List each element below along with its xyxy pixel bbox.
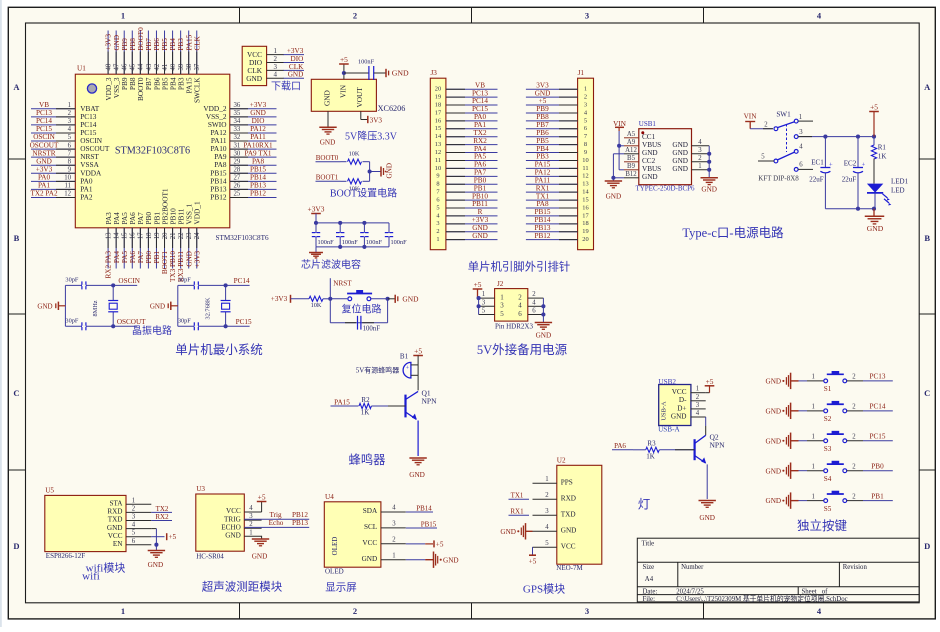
svg-text:+5: +5 — [529, 558, 537, 566]
svg-text:VCC: VCC — [108, 532, 123, 540]
svg-text:PB12: PB12 — [250, 190, 266, 198]
svg-text:PA1: PA1 — [474, 121, 487, 129]
svg-text:14: 14 — [582, 189, 589, 196]
svg-text:100nF: 100nF — [358, 58, 375, 65]
svg-text:S2: S2 — [824, 415, 832, 423]
svg-text:3: 3 — [482, 299, 486, 306]
svg-text:STM32F103C8T6: STM32F103C8T6 — [115, 146, 190, 157]
svg-text:15: 15 — [435, 125, 441, 132]
svg-text:3: 3 — [274, 63, 278, 71]
svg-text:GND: GND — [107, 524, 123, 532]
svg-text:B1: B1 — [400, 353, 409, 361]
svg-text:42: 42 — [154, 63, 161, 70]
svg-text:30pF: 30pF — [65, 317, 78, 324]
svg-text:21: 21 — [170, 233, 177, 240]
svg-text:GND: GND — [113, 35, 121, 51]
svg-text:PB0: PB0 — [145, 251, 153, 264]
svg-text:VCC: VCC — [226, 507, 241, 515]
svg-text:5V有源蜂鸣器: 5V有源蜂鸣器 — [356, 365, 400, 374]
svg-text:1: 1 — [68, 102, 71, 109]
svg-text:33: 33 — [234, 126, 241, 133]
svg-text:PA5: PA5 — [121, 251, 129, 264]
svg-text:GND: GND — [642, 149, 658, 157]
svg-text:GND: GND — [699, 514, 715, 522]
svg-text:46: 46 — [122, 63, 129, 70]
svg-text:2: 2 — [852, 434, 856, 441]
svg-text:+5: +5 — [340, 55, 348, 64]
svg-text:B12: B12 — [625, 171, 637, 178]
svg-text:1: 1 — [698, 163, 701, 170]
svg-text:GND: GND — [320, 138, 336, 146]
svg-text:+3V3: +3V3 — [308, 205, 325, 214]
svg-text:RX2: RX2 — [473, 137, 487, 145]
svg-text:3: 3 — [696, 402, 700, 409]
svg-text:VOUT: VOUT — [355, 87, 364, 108]
svg-text:1: 1 — [482, 291, 485, 298]
svg-text:GND: GND — [766, 407, 782, 415]
svg-text:ESP8266-12F: ESP8266-12F — [46, 552, 85, 560]
svg-text:PC13: PC13 — [870, 373, 886, 381]
svg-text:2024/7/25: 2024/7/25 — [676, 588, 704, 595]
svg-text:30pF: 30pF — [178, 317, 191, 324]
svg-text:U2: U2 — [557, 457, 566, 465]
svg-text:USB-A: USB-A — [658, 426, 680, 434]
svg-text:GND: GND — [561, 527, 577, 535]
svg-text:2: 2 — [274, 55, 278, 63]
svg-text:XC6206: XC6206 — [378, 104, 406, 113]
svg-text:11: 11 — [435, 157, 441, 164]
svg-text:GND: GND — [402, 294, 419, 303]
svg-text:VIN: VIN — [339, 84, 348, 98]
svg-text:3: 3 — [585, 11, 589, 21]
svg-text:30pF: 30pF — [65, 277, 78, 284]
svg-text:PB9: PB9 — [536, 105, 549, 113]
svg-text:24: 24 — [194, 232, 201, 239]
svg-text:1: 1 — [811, 434, 814, 441]
svg-text:PB7: PB7 — [536, 121, 549, 129]
svg-text:4: 4 — [518, 302, 522, 310]
svg-text:PA7: PA7 — [137, 251, 145, 264]
svg-text:10: 10 — [435, 165, 441, 172]
svg-text:3: 3 — [698, 147, 702, 154]
svg-text:PB3: PB3 — [536, 153, 549, 161]
svg-text:100nF: 100nF — [342, 239, 359, 246]
svg-text:PB5: PB5 — [161, 38, 169, 51]
svg-text:GND: GND — [642, 173, 658, 181]
svg-text:1: 1 — [811, 463, 814, 470]
svg-text:10: 10 — [64, 175, 71, 182]
svg-text:GND: GND — [536, 332, 552, 340]
svg-text:PA0: PA0 — [474, 113, 487, 121]
svg-text:SWCLK: SWCLK — [193, 77, 202, 103]
svg-text:D: D — [13, 541, 19, 551]
svg-text:GND: GND — [225, 532, 241, 540]
svg-text:13: 13 — [435, 141, 441, 148]
svg-text:17: 17 — [435, 109, 442, 116]
svg-text:+: + — [862, 161, 866, 168]
svg-text:3V3: 3V3 — [370, 116, 383, 124]
svg-text:PC15: PC15 — [870, 433, 886, 441]
svg-text:2: 2 — [132, 505, 136, 512]
svg-text:LED: LED — [891, 187, 905, 195]
svg-text:3: 3 — [799, 129, 803, 136]
svg-text:PA8: PA8 — [252, 157, 265, 165]
svg-text:GND: GND — [500, 528, 516, 536]
svg-text:VB: VB — [39, 101, 49, 109]
svg-text:GND: GND — [250, 109, 266, 117]
svg-text:+5: +5 — [539, 97, 547, 105]
svg-text:41: 41 — [162, 64, 169, 71]
svg-text:BOOT0: BOOT0 — [316, 154, 339, 162]
svg-text:SDA: SDA — [363, 507, 378, 515]
svg-text:PB13: PB13 — [292, 519, 308, 527]
svg-text:PB15: PB15 — [421, 520, 437, 528]
svg-text:1: 1 — [811, 404, 814, 411]
svg-text:10: 10 — [582, 157, 588, 164]
svg-text:PB14: PB14 — [416, 504, 432, 512]
svg-text:10K: 10K — [349, 151, 360, 158]
svg-text:3: 3 — [436, 220, 439, 227]
svg-text:PA10RX1: PA10RX1 — [243, 141, 273, 149]
svg-text:2: 2 — [696, 394, 700, 401]
svg-text:GND: GND — [766, 467, 782, 475]
svg-text:Sheet of: Sheet of — [802, 588, 829, 595]
svg-text:U1: U1 — [77, 65, 86, 73]
svg-text:Trig: Trig — [269, 511, 282, 519]
svg-text:+3V3: +3V3 — [287, 47, 304, 55]
svg-text:R2: R2 — [361, 396, 370, 404]
svg-text:RX2 PA3: RX2 PA3 — [105, 251, 113, 279]
svg-text:1K: 1K — [361, 409, 370, 417]
svg-text:A: A — [924, 82, 931, 92]
svg-text:5: 5 — [436, 204, 439, 211]
svg-text:1: 1 — [392, 552, 395, 559]
svg-text:5: 5 — [545, 540, 549, 547]
svg-text:复位电路: 复位电路 — [342, 302, 382, 315]
svg-text:EC2: EC2 — [844, 159, 857, 167]
svg-text:GND: GND — [386, 163, 394, 179]
svg-text:+5: +5 — [414, 347, 422, 356]
svg-text:U4: U4 — [325, 493, 334, 501]
svg-text:2: 2 — [436, 228, 439, 235]
svg-text:2: 2 — [852, 404, 856, 411]
svg-text:12: 12 — [435, 149, 441, 156]
svg-text:22: 22 — [178, 232, 185, 239]
svg-text:11: 11 — [64, 183, 71, 190]
svg-text:PB7: PB7 — [145, 38, 153, 51]
svg-text:A: A — [13, 82, 20, 92]
svg-text:GND: GND — [246, 74, 262, 83]
svg-text:GND: GND — [252, 553, 268, 561]
svg-text:12: 12 — [64, 191, 71, 198]
svg-text:NPN: NPN — [422, 397, 438, 406]
svg-text:19: 19 — [154, 232, 161, 239]
svg-text:超声波测距模块: 超声波测距模块 — [202, 580, 283, 594]
svg-text:Echo: Echo — [269, 519, 284, 527]
svg-text:U5: U5 — [45, 487, 54, 495]
svg-text:B9: B9 — [627, 163, 636, 170]
svg-text:GND: GND — [36, 157, 52, 165]
svg-text:14: 14 — [114, 232, 121, 239]
svg-text:D-: D- — [679, 396, 687, 404]
svg-text:2: 2 — [545, 492, 549, 499]
svg-text:1: 1 — [500, 294, 504, 302]
svg-text:2: 2 — [353, 11, 357, 21]
svg-text:PB11: PB11 — [472, 200, 488, 208]
svg-text:17: 17 — [582, 212, 589, 219]
svg-text:6: 6 — [518, 310, 522, 318]
svg-text:CC1: CC1 — [642, 133, 656, 141]
svg-text:PC15: PC15 — [236, 318, 252, 326]
svg-text:PB14: PB14 — [535, 216, 551, 224]
svg-text:+: + — [829, 161, 833, 168]
svg-text:1: 1 — [121, 11, 125, 21]
svg-text:CLK: CLK — [193, 35, 201, 50]
svg-text:GND: GND — [701, 186, 717, 194]
svg-text:30: 30 — [234, 150, 241, 157]
svg-text:6: 6 — [436, 196, 439, 203]
svg-text:PC15: PC15 — [36, 125, 52, 133]
svg-text:4: 4 — [532, 299, 536, 306]
svg-text:BOOT1: BOOT1 — [316, 174, 339, 182]
svg-text:5: 5 — [584, 117, 587, 124]
svg-text:6: 6 — [532, 308, 536, 315]
svg-text:PA5: PA5 — [474, 153, 487, 161]
svg-text:27: 27 — [234, 175, 241, 182]
svg-text:+3V3: +3V3 — [105, 34, 113, 51]
svg-text:PA15: PA15 — [334, 398, 350, 406]
svg-text:4: 4 — [696, 410, 700, 417]
svg-text:灯: 灯 — [638, 498, 651, 512]
svg-text:PB12: PB12 — [210, 192, 227, 201]
svg-text:PPS: PPS — [561, 479, 573, 487]
svg-text:PB0: PB0 — [871, 462, 884, 470]
svg-text:1: 1 — [436, 236, 439, 243]
svg-text:20: 20 — [162, 232, 169, 239]
svg-text:1: 1 — [545, 476, 548, 483]
svg-text:Revision: Revision — [843, 564, 868, 571]
svg-text:PC15: PC15 — [472, 105, 488, 113]
svg-text:GND: GND — [672, 157, 688, 165]
svg-text:D: D — [924, 541, 930, 551]
svg-text:OLED: OLED — [325, 568, 344, 576]
svg-text:19: 19 — [435, 94, 441, 101]
svg-text:PB1: PB1 — [153, 251, 161, 264]
svg-text:HC-SR04: HC-SR04 — [196, 553, 224, 561]
svg-text:44: 44 — [138, 63, 145, 70]
svg-text:PB1: PB1 — [474, 184, 487, 192]
svg-text:S4: S4 — [824, 475, 832, 483]
svg-text:PA6: PA6 — [614, 442, 626, 450]
svg-text:25: 25 — [234, 191, 241, 198]
svg-text:GND: GND — [671, 412, 687, 420]
svg-text:3: 3 — [545, 508, 549, 515]
svg-text:GND: GND — [766, 378, 782, 386]
svg-text:PB8: PB8 — [536, 113, 549, 121]
svg-text:3: 3 — [68, 118, 72, 125]
svg-text:NPN: NPN — [710, 441, 726, 450]
svg-text:17: 17 — [138, 232, 145, 239]
svg-text:DIO: DIO — [291, 55, 304, 63]
svg-text:47: 47 — [114, 63, 121, 70]
svg-text:2: 2 — [698, 155, 702, 162]
svg-text:3: 3 — [392, 521, 396, 528]
svg-text:A12: A12 — [625, 147, 637, 154]
svg-text:10K: 10K — [311, 302, 322, 309]
svg-text:37: 37 — [194, 63, 201, 70]
svg-text:2: 2 — [852, 493, 856, 500]
svg-text:9: 9 — [584, 149, 587, 156]
svg-text:18: 18 — [435, 101, 441, 108]
svg-text:BOOT1: BOOT1 — [161, 251, 169, 275]
svg-text:J3: J3 — [431, 69, 438, 77]
svg-text:12: 12 — [582, 173, 588, 180]
svg-text:PA15: PA15 — [185, 34, 193, 50]
svg-text:DIO: DIO — [252, 117, 265, 125]
svg-text:GND: GND — [288, 71, 304, 79]
svg-text:BOOT设置电路: BOOT设置电路 — [330, 187, 397, 200]
svg-text:5: 5 — [68, 134, 72, 141]
svg-text:VB: VB — [475, 81, 485, 89]
svg-text:OSCOUT: OSCOUT — [30, 141, 59, 149]
svg-text:8: 8 — [68, 158, 72, 165]
svg-text:6: 6 — [584, 125, 587, 132]
svg-text:独立按键: 独立按键 — [797, 518, 848, 533]
svg-text:19: 19 — [582, 228, 588, 235]
svg-text:GND: GND — [472, 224, 488, 232]
svg-text:7: 7 — [68, 150, 72, 157]
svg-text:39: 39 — [178, 63, 185, 70]
svg-text:R3: R3 — [647, 440, 656, 448]
svg-text:6: 6 — [799, 162, 803, 169]
svg-text:38: 38 — [186, 63, 193, 70]
svg-text:VCC: VCC — [362, 539, 377, 547]
svg-text:PA15: PA15 — [535, 161, 551, 169]
svg-text:4: 4 — [799, 144, 803, 151]
svg-text:PB0: PB0 — [474, 176, 487, 184]
svg-text:+5: +5 — [474, 280, 482, 289]
svg-text:GND: GND — [150, 302, 165, 310]
svg-text:+3V3: +3V3 — [250, 101, 267, 109]
svg-text:22uF: 22uF — [809, 176, 824, 184]
svg-text:+3V3: +3V3 — [271, 295, 288, 303]
svg-text:18: 18 — [146, 232, 153, 239]
svg-text:2: 2 — [764, 122, 768, 129]
svg-text:1: 1 — [811, 374, 814, 381]
svg-text:11: 11 — [582, 165, 588, 172]
svg-text:D+: D+ — [677, 404, 686, 412]
svg-text:13: 13 — [582, 181, 588, 188]
svg-text:2: 2 — [532, 291, 536, 298]
svg-text:A5: A5 — [627, 131, 636, 138]
svg-text:20: 20 — [435, 86, 441, 93]
svg-text:VDD_1: VDD_1 — [193, 201, 202, 224]
svg-text:1: 1 — [584, 86, 587, 93]
svg-text:36: 36 — [234, 102, 241, 109]
svg-text:PB9: PB9 — [121, 38, 129, 51]
svg-text:20: 20 — [582, 236, 588, 243]
svg-text:34: 34 — [234, 118, 241, 125]
svg-text:wifi: wifi — [82, 571, 100, 583]
svg-text:22uF: 22uF — [842, 176, 857, 184]
svg-text:单片机引脚外引排针: 单片机引脚外引排针 — [468, 260, 571, 274]
svg-text:1: 1 — [811, 493, 814, 500]
svg-text:16: 16 — [582, 204, 588, 211]
svg-text:VBUS: VBUS — [642, 165, 661, 173]
svg-text:9: 9 — [436, 173, 439, 180]
svg-text:+3V3: +3V3 — [472, 216, 489, 224]
svg-text:32.768K: 32.768K — [204, 297, 211, 319]
svg-text:1: 1 — [121, 606, 125, 616]
svg-text:5: 5 — [761, 154, 765, 161]
svg-text:Date:: Date: — [643, 588, 658, 595]
svg-text:4: 4 — [68, 126, 72, 133]
svg-text:NEO-7M: NEO-7M — [556, 564, 583, 572]
svg-text:5: 5 — [132, 530, 136, 537]
svg-text:PB3: PB3 — [177, 38, 185, 51]
svg-text:31: 31 — [234, 142, 241, 149]
svg-text:4: 4 — [249, 505, 253, 512]
svg-text:TYPEC-250D-BCP6: TYPEC-250D-BCP6 — [635, 185, 695, 193]
svg-text:PB4: PB4 — [169, 38, 177, 51]
svg-text:OSCOUT: OSCOUT — [117, 318, 146, 326]
svg-text:GND: GND — [672, 141, 688, 149]
svg-text:TXD: TXD — [561, 511, 576, 519]
svg-text:GND: GND — [766, 497, 782, 505]
svg-text:+3V3: +3V3 — [36, 165, 53, 173]
svg-text:LED1: LED1 — [891, 177, 909, 185]
svg-text:CLK: CLK — [289, 63, 304, 71]
svg-text:3: 3 — [500, 302, 504, 310]
svg-text:15: 15 — [582, 196, 588, 203]
svg-text:2: 2 — [392, 536, 396, 543]
svg-text:B5: B5 — [627, 155, 636, 162]
svg-text:6: 6 — [68, 142, 72, 149]
svg-text:1: 1 — [132, 497, 135, 504]
svg-text:PA11: PA11 — [250, 133, 266, 141]
svg-text:GND: GND — [606, 193, 622, 201]
svg-text:PC14: PC14 — [234, 277, 250, 285]
svg-text:2: 2 — [852, 374, 856, 381]
svg-text:9: 9 — [68, 166, 72, 173]
svg-text:VBUS: VBUS — [642, 141, 661, 149]
svg-text:45: 45 — [130, 63, 137, 70]
svg-text:8MHz: 8MHz — [92, 300, 99, 316]
svg-text:TX1: TX1 — [511, 492, 524, 500]
svg-text:GND: GND — [362, 555, 378, 563]
svg-text:B: B — [924, 233, 930, 243]
svg-text:PB15: PB15 — [250, 165, 266, 173]
svg-text:PC13: PC13 — [472, 89, 488, 97]
svg-text:TX2: TX2 — [156, 505, 169, 513]
svg-text:43: 43 — [146, 63, 153, 70]
svg-text:8: 8 — [584, 141, 587, 148]
svg-text:B: B — [14, 233, 20, 243]
svg-text:PB6: PB6 — [153, 38, 161, 51]
svg-text:STM32F103C8T6: STM32F103C8T6 — [216, 234, 270, 242]
svg-text:GND: GND — [672, 149, 688, 157]
svg-text:2: 2 — [68, 110, 72, 117]
svg-text:USB-A: USB-A — [661, 401, 668, 421]
svg-text:PC14: PC14 — [870, 403, 886, 411]
svg-text:NRST: NRST — [333, 279, 352, 287]
svg-text:4: 4 — [392, 505, 396, 512]
svg-text:GND: GND — [392, 69, 409, 78]
svg-text:S3: S3 — [824, 445, 832, 453]
svg-text:3V3: 3V3 — [536, 81, 549, 89]
svg-text:PB4: PB4 — [536, 145, 549, 153]
svg-text:14: 14 — [435, 133, 442, 140]
